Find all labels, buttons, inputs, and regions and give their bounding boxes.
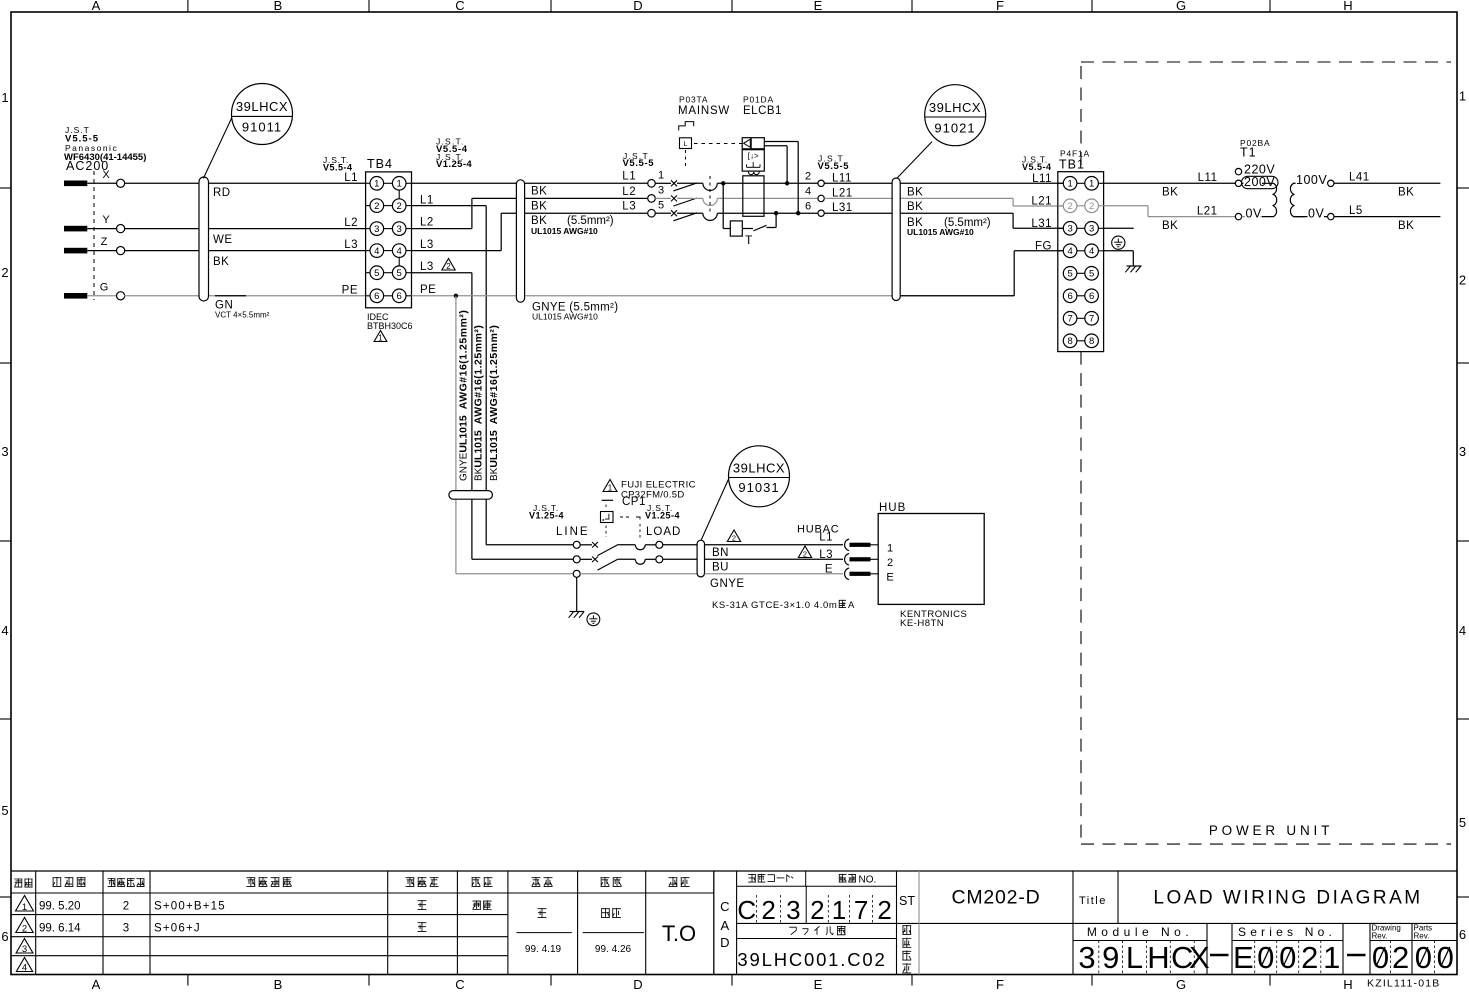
svg-text:3: 3: [374, 224, 379, 235]
svg-text:Series No.: Series No.: [1238, 925, 1336, 939]
svg-text:TB1: TB1: [1059, 158, 1085, 172]
svg-text:BK: BK: [907, 187, 923, 199]
svg-text:BKUL1015AWG#16(1.25mm²): BKUL1015AWG#16(1.25mm²): [473, 325, 485, 481]
svg-text:39LHCX: 39LHCX: [236, 99, 288, 114]
svg-text:1: 1: [1089, 179, 1094, 190]
svg-text:L21: L21: [832, 187, 853, 199]
svg-text:L1: L1: [420, 195, 434, 207]
svg-text:L3: L3: [622, 201, 636, 213]
svg-text:1: 1: [608, 483, 613, 492]
svg-text:1: 1: [832, 895, 846, 925]
svg-text:UL1015 AWG#10: UL1015 AWG#10: [531, 226, 598, 236]
svg-text:POWER UNIT: POWER UNIT: [1209, 823, 1333, 838]
svg-text:C: C: [737, 895, 756, 925]
svg-text:1: 1: [1067, 179, 1072, 190]
svg-text:L3: L3: [819, 549, 833, 561]
svg-text:6: 6: [1089, 291, 1094, 302]
svg-text:UL1015 AWG#10: UL1015 AWG#10: [532, 312, 598, 322]
svg-text:6: 6: [1, 929, 8, 944]
svg-text:7: 7: [1067, 314, 1072, 325]
svg-text:V1.25-4: V1.25-4: [645, 511, 680, 521]
svg-text:5: 5: [1, 803, 8, 818]
svg-text:1: 1: [1459, 89, 1466, 104]
svg-text:L5: L5: [1349, 205, 1363, 217]
svg-text:6: 6: [1459, 927, 1466, 942]
svg-text:H: H: [1147, 940, 1169, 975]
svg-text:LOAD: LOAD: [646, 526, 681, 538]
svg-text:HUB: HUB: [879, 502, 906, 514]
svg-text:F: F: [996, 977, 1004, 992]
svg-text:L3: L3: [420, 261, 434, 273]
svg-text:6: 6: [374, 291, 379, 302]
svg-text:LOAD WIRING DIAGRAM: LOAD WIRING DIAGRAM: [1153, 888, 1422, 909]
svg-text:L2: L2: [420, 217, 434, 229]
svg-text:2: 2: [877, 895, 891, 925]
svg-text:1: 1: [397, 179, 402, 190]
svg-text:G: G: [1176, 977, 1186, 992]
svg-text:8: 8: [1067, 336, 1072, 347]
svg-text:D: D: [633, 977, 642, 992]
svg-text:S+00+B+15: S+00+B+15: [154, 901, 226, 913]
svg-text:100V: 100V: [1296, 173, 1327, 187]
svg-text:99. 5.20: 99. 5.20: [39, 901, 81, 913]
svg-text:L21: L21: [1031, 196, 1052, 208]
svg-text:BKUL1015AWG#16(1.25mm²): BKUL1015AWG#16(1.25mm²): [488, 325, 500, 481]
svg-text:5: 5: [1067, 269, 1072, 280]
svg-text:4: 4: [1459, 623, 1466, 638]
svg-text:L1: L1: [622, 171, 636, 183]
svg-text:3: 3: [397, 224, 402, 235]
svg-text:99. 4.19: 99. 4.19: [525, 944, 562, 955]
svg-text:2: 2: [761, 895, 775, 925]
svg-text:3: 3: [786, 895, 800, 925]
svg-text:4: 4: [22, 962, 27, 973]
svg-text:L: L: [1126, 940, 1143, 975]
svg-text:T: T: [745, 233, 753, 247]
svg-text:6: 6: [397, 291, 402, 302]
svg-text:KS-31A GTCE-3×1.0 4.0m: KS-31A GTCE-3×1.0 4.0m: [712, 600, 837, 611]
svg-text:A: A: [92, 977, 101, 992]
svg-text:Module No.: Module No.: [1087, 925, 1193, 939]
svg-text:6: 6: [805, 200, 811, 212]
svg-text:A: A: [848, 600, 855, 611]
svg-text:E: E: [814, 0, 823, 13]
svg-text:4: 4: [1, 623, 8, 638]
svg-text:L31: L31: [832, 202, 853, 214]
svg-text:S+06+J: S+06+J: [154, 923, 201, 935]
svg-text:G: G: [100, 281, 109, 293]
svg-text:FG: FG: [1035, 241, 1052, 253]
svg-text:4: 4: [397, 246, 402, 257]
svg-text:3: 3: [1, 444, 8, 459]
svg-text:5: 5: [397, 268, 402, 279]
svg-text:4: 4: [805, 186, 811, 198]
svg-text:1: 1: [887, 543, 893, 555]
svg-text:L11: L11: [832, 172, 852, 184]
svg-text:E: E: [1233, 940, 1254, 975]
svg-text:1: 1: [374, 179, 379, 190]
svg-text:39LHCX: 39LHCX: [929, 100, 981, 115]
svg-text:E: E: [886, 572, 893, 584]
svg-text:99. 4.26: 99. 4.26: [595, 944, 632, 955]
svg-text:[↓>: [↓>: [748, 152, 759, 161]
svg-text:ELCB1: ELCB1: [743, 105, 782, 117]
svg-text:LINE: LINE: [556, 526, 590, 538]
svg-text:F: F: [996, 0, 1004, 13]
svg-text:0V: 0V: [1308, 206, 1324, 220]
svg-text:MAINSW: MAINSW: [678, 105, 730, 117]
svg-text:6: 6: [1067, 291, 1072, 302]
svg-text:BTBH30C6: BTBH30C6: [367, 321, 413, 331]
svg-text:L41: L41: [1349, 172, 1370, 184]
svg-text:91031: 91031: [738, 480, 779, 495]
svg-text:L21: L21: [1197, 206, 1218, 218]
svg-text:Title: Title: [1079, 895, 1107, 907]
svg-text:V5.5-5: V5.5-5: [623, 158, 655, 169]
svg-text:BK: BK: [531, 201, 547, 213]
svg-text:4: 4: [374, 246, 379, 257]
svg-text:KZIL111-01B: KZIL111-01B: [1367, 978, 1441, 990]
svg-text:3: 3: [123, 923, 129, 935]
svg-text:V1.25-4: V1.25-4: [436, 159, 472, 170]
svg-text:PE: PE: [342, 284, 358, 296]
svg-text:BK: BK: [531, 186, 547, 198]
svg-text:2: 2: [374, 201, 379, 212]
svg-text:L2: L2: [622, 186, 636, 198]
svg-text:A: A: [92, 0, 101, 13]
svg-text:E: E: [825, 564, 833, 576]
svg-text:Y: Y: [102, 214, 110, 226]
svg-text:1: 1: [658, 170, 664, 182]
svg-text:4: 4: [1089, 246, 1094, 257]
svg-text:PE: PE: [420, 284, 436, 296]
svg-text:2: 2: [887, 557, 893, 569]
svg-text:NO.: NO.: [859, 875, 877, 886]
svg-text:GNYEUL1015AWG#16(1.25mm²): GNYEUL1015AWG#16(1.25mm²): [458, 310, 470, 481]
svg-text:2: 2: [1067, 201, 1072, 212]
svg-text:5: 5: [1459, 815, 1466, 830]
svg-text:2: 2: [397, 201, 402, 212]
svg-text:L2: L2: [344, 217, 358, 229]
svg-text:1: 1: [1, 90, 8, 105]
svg-text:7: 7: [854, 895, 868, 925]
svg-text:KE-H8TN: KE-H8TN: [900, 618, 944, 629]
svg-text:P03TA: P03TA: [679, 95, 708, 105]
svg-text:B: B: [274, 977, 283, 992]
svg-text:8: 8: [1089, 336, 1094, 347]
svg-text:BK: BK: [1162, 220, 1178, 232]
svg-text:C: C: [455, 977, 464, 992]
svg-text:T1: T1: [1240, 146, 1257, 160]
svg-text:1: 1: [1323, 940, 1340, 975]
svg-text:ST: ST: [899, 894, 915, 908]
svg-text:BK: BK: [907, 201, 923, 213]
svg-text:2: 2: [732, 533, 736, 542]
svg-text:2: 2: [803, 549, 807, 558]
svg-text:2: 2: [1301, 940, 1318, 975]
svg-text:V5.5-4: V5.5-4: [1022, 162, 1052, 172]
svg-text:D: D: [720, 935, 729, 950]
svg-text:2: 2: [1, 265, 8, 280]
svg-text:5: 5: [374, 268, 379, 279]
svg-text:H: H: [1343, 0, 1352, 13]
svg-text:CM202-D: CM202-D: [951, 887, 1040, 909]
svg-text:WE: WE: [213, 234, 233, 246]
svg-text:L3: L3: [344, 239, 358, 251]
svg-text:39LHC001.C02: 39LHC001.C02: [737, 949, 886, 970]
svg-text:V5.5-5: V5.5-5: [818, 161, 850, 172]
svg-text:2: 2: [1459, 273, 1466, 288]
svg-text:B: B: [274, 0, 283, 13]
svg-text:VCT 4×5.5mm²: VCT 4×5.5mm²: [215, 311, 270, 320]
svg-text:C: C: [720, 899, 729, 914]
svg-text:1: 1: [22, 902, 27, 913]
svg-text:2: 2: [446, 262, 451, 271]
svg-text:L11: L11: [1198, 172, 1218, 184]
svg-text:L1: L1: [344, 172, 358, 184]
svg-text:5: 5: [658, 199, 664, 211]
svg-text:L1: L1: [819, 532, 833, 544]
svg-text:2: 2: [1089, 201, 1094, 212]
svg-text:2: 2: [810, 895, 824, 925]
svg-text:4: 4: [1067, 246, 1072, 257]
svg-text:TB4: TB4: [367, 157, 393, 171]
svg-text:BN: BN: [712, 547, 729, 559]
svg-text:2: 2: [123, 901, 129, 913]
svg-text:CP1: CP1: [622, 496, 646, 508]
svg-text:UL1015 AWG#10: UL1015 AWG#10: [907, 227, 974, 237]
svg-text:BK: BK: [213, 256, 229, 268]
svg-text:T.O: T.O: [662, 921, 696, 946]
svg-text:GNYE: GNYE: [710, 578, 745, 590]
svg-text:P01DA: P01DA: [743, 95, 774, 105]
svg-text:1: 1: [378, 333, 383, 342]
svg-text:3: 3: [1459, 444, 1466, 459]
svg-text:L: L: [684, 141, 688, 148]
svg-text:3: 3: [658, 185, 664, 197]
svg-text:91021: 91021: [934, 121, 975, 136]
svg-text:G: G: [1176, 0, 1186, 13]
svg-text:E: E: [814, 977, 823, 992]
svg-text:7: 7: [1089, 314, 1094, 325]
svg-text:C: C: [455, 0, 464, 13]
svg-text:BK: BK: [1398, 187, 1414, 199]
svg-text:91011: 91011: [242, 120, 282, 135]
svg-text:5: 5: [1089, 269, 1094, 280]
svg-text:RD: RD: [213, 187, 231, 199]
svg-text:L11: L11: [1032, 173, 1052, 185]
svg-text:BK: BK: [1162, 187, 1178, 199]
svg-text:3: 3: [1067, 224, 1072, 235]
svg-text:BU: BU: [712, 562, 729, 574]
svg-text:L3: L3: [420, 239, 434, 251]
svg-text:99. 6.14: 99. 6.14: [39, 923, 81, 935]
svg-text:2: 2: [22, 923, 27, 934]
svg-text:2: 2: [805, 171, 811, 183]
svg-text:A: A: [720, 918, 729, 933]
svg-text:0V: 0V: [1246, 206, 1262, 220]
svg-text:3: 3: [1089, 224, 1094, 235]
svg-text:39LHCX: 39LHCX: [733, 461, 785, 476]
svg-text:9: 9: [1102, 940, 1119, 975]
svg-text:2: 2: [1392, 940, 1409, 975]
svg-text:L31: L31: [1031, 218, 1052, 230]
svg-text:V1.25-4: V1.25-4: [529, 511, 564, 521]
svg-text:3: 3: [1078, 940, 1095, 975]
svg-text:X: X: [1189, 940, 1210, 975]
svg-text:200V: 200V: [1244, 175, 1275, 189]
svg-text:BK: BK: [1398, 220, 1414, 232]
svg-text:Z: Z: [101, 236, 108, 248]
svg-text:3: 3: [22, 944, 27, 955]
svg-text:D: D: [633, 0, 642, 13]
svg-text:X: X: [102, 169, 110, 181]
svg-text:H: H: [1343, 977, 1352, 992]
